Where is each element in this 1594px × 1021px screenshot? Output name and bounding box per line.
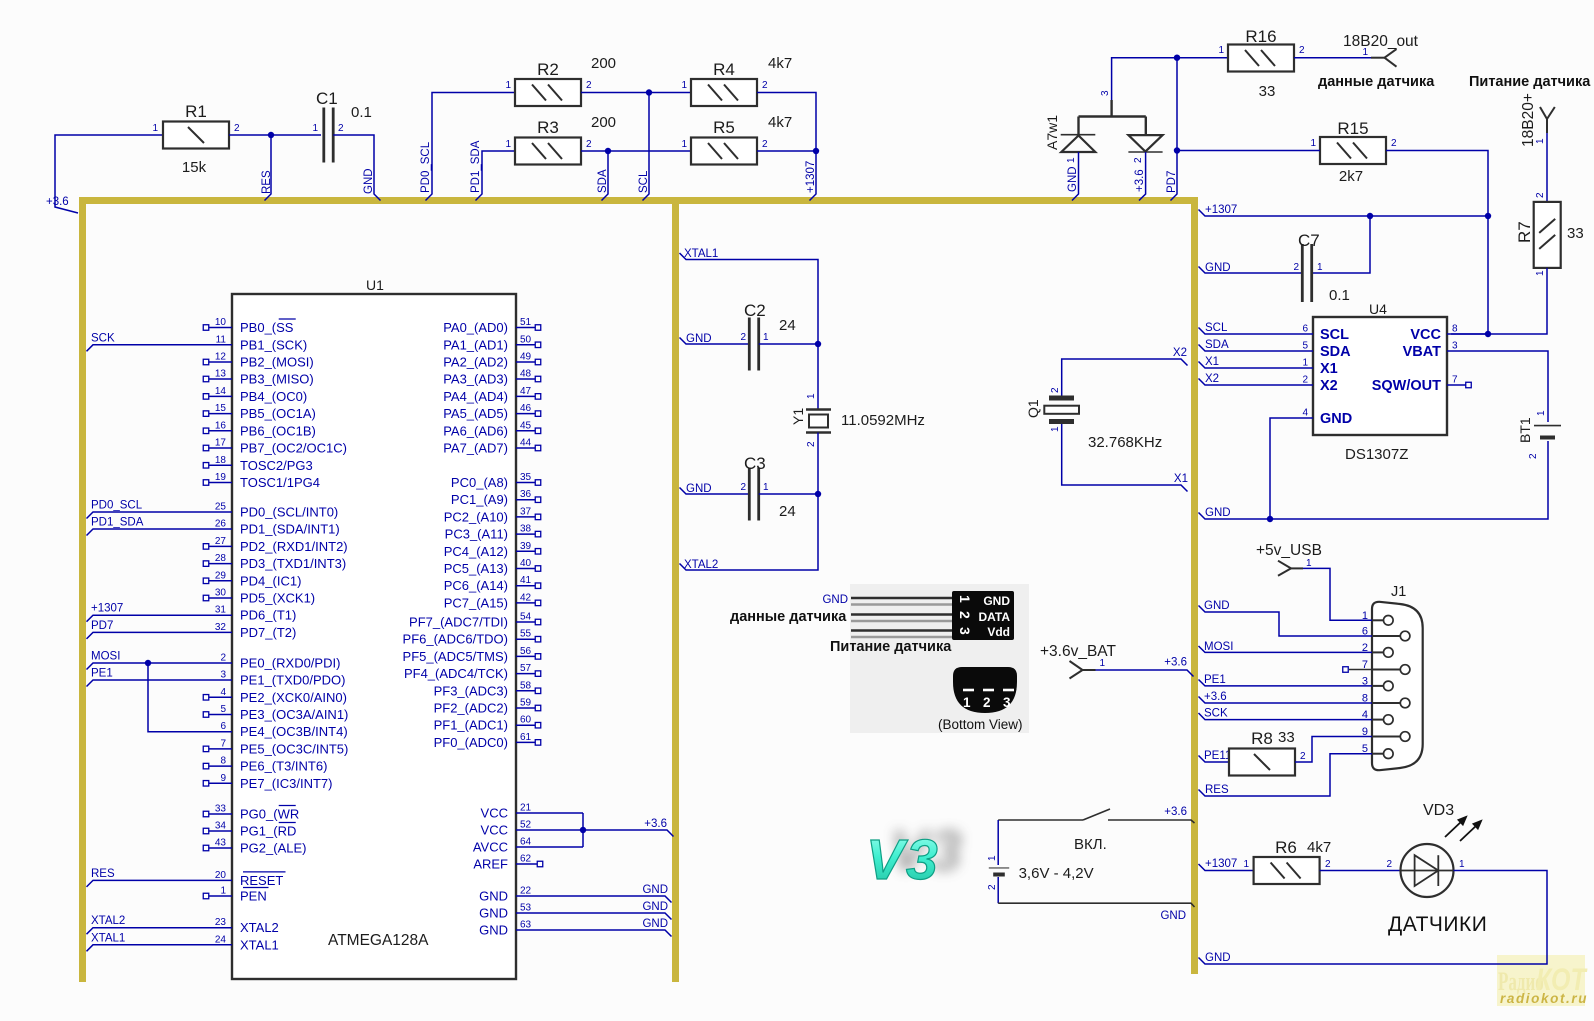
wire BT1 pin2 down and left to GND line <box>1270 441 1548 519</box>
port 18B20+ symbol <box>1546 119 1548 133</box>
resistor R1 <box>163 122 229 149</box>
wire R7 pin1 down to VCC node of U4 <box>1451 268 1547 334</box>
wire U4 VCC pin8 to junction <box>1447 333 1488 335</box>
wire GND from bus to J1 pin6 <box>1199 606 1373 637</box>
capacitor C3 <box>748 468 751 521</box>
svg-text:1: 1 <box>1050 426 1061 432</box>
svg-text:2: 2 <box>762 80 768 91</box>
svg-text:PF3_(ADC3): PF3_(ADC3) <box>434 683 508 698</box>
svg-text:RES: RES <box>91 868 115 880</box>
svg-text:DS1307Z: DS1307Z <box>1345 446 1408 463</box>
U1 pin 3 PE1_(TXD0/PDO) <box>87 680 233 687</box>
svg-text:PA5_(AD5): PA5_(AD5) <box>443 406 508 421</box>
wire VCC trunk to +3.6 bus entry <box>582 813 584 847</box>
svg-text:51: 51 <box>520 317 532 328</box>
battery BT1 <box>1534 425 1561 427</box>
svg-text:SQW/OUT: SQW/OUT <box>1372 378 1441 394</box>
svg-text:4: 4 <box>220 687 226 698</box>
svg-text:PC3_(A11): PC3_(A11) <box>445 527 508 542</box>
svg-text:PA0_(AD0): PA0_(AD0) <box>443 320 508 335</box>
svg-text:3: 3 <box>957 627 973 635</box>
svg-text:U4: U4 <box>1369 301 1387 317</box>
svg-text:GND: GND <box>1205 507 1231 519</box>
U1 pin 43 PG2_(ALE) <box>209 847 232 849</box>
svg-text:5: 5 <box>220 704 226 715</box>
sensor pinout panel background <box>850 584 1029 733</box>
U1 pin 2 PE0_(RXD0/PDI) <box>87 663 233 670</box>
svg-text:PF0_(ADC0): PF0_(ADC0) <box>434 735 508 750</box>
U1 pin 24 XTAL1 <box>87 945 233 952</box>
svg-text:R15: R15 <box>1337 119 1368 138</box>
svg-text:33: 33 <box>215 804 227 815</box>
J1 pin 6 <box>1372 635 1400 637</box>
svg-text:8: 8 <box>220 756 226 767</box>
svg-text:2: 2 <box>234 123 240 134</box>
svg-text:VD3: VD3 <box>1423 802 1454 819</box>
svg-text:39: 39 <box>520 541 532 552</box>
resistor R2 <box>515 79 581 106</box>
wire Y1 pin2 down to junction <box>817 433 819 495</box>
battery GB (3.6V) <box>989 867 1009 869</box>
U1 pin 58 PF3_(ADC3) <box>516 690 535 692</box>
port 18B20_out <box>1371 57 1385 59</box>
svg-text:+3.6: +3.6 <box>1164 806 1187 818</box>
svg-text:15: 15 <box>215 403 227 414</box>
svg-text:2: 2 <box>1528 453 1539 459</box>
bottom view digits 1 2 3 with overbars <box>963 689 974 692</box>
U4 SQW/OUT stub <box>1447 384 1466 386</box>
svg-text:2: 2 <box>762 139 768 150</box>
wire R8 pin2 to J1 pin9 <box>1295 737 1372 763</box>
op chip U1 ATMEGA128A body <box>232 294 516 979</box>
svg-text:2: 2 <box>740 482 746 493</box>
svg-text:MOSI: MOSI <box>1204 641 1233 653</box>
svg-text:PE0_(RXD0/PDI): PE0_(RXD0/PDI) <box>240 656 340 671</box>
svg-text:44: 44 <box>520 438 532 449</box>
U1 pin 9 PE7_(IC3/INT7) <box>209 782 232 784</box>
U1 pin 57 PF4_(ADC4/TCK) <box>516 673 535 675</box>
port +3.6v_BAT symbol <box>1070 661 1083 670</box>
svg-text:22: 22 <box>520 886 532 897</box>
U1 pin 64 AVCC <box>516 846 583 848</box>
svg-text:56: 56 <box>520 646 532 657</box>
svg-text:RESET: RESET <box>240 873 283 888</box>
svg-text:46: 46 <box>520 403 532 414</box>
svg-text:PF5_(ADC5/TMS): PF5_(ADC5/TMS) <box>403 649 508 664</box>
svg-text:1: 1 <box>1306 558 1312 569</box>
U1 pin 13 PB3_(MISO) <box>209 378 232 380</box>
resistor R5 <box>691 138 757 165</box>
svg-text:+3.6: +3.6 <box>46 196 69 208</box>
svg-text:TOSC2/PG3: TOSC2/PG3 <box>240 458 313 473</box>
svg-text:GND: GND <box>1320 411 1352 427</box>
svg-text:+1307: +1307 <box>1205 204 1237 216</box>
U1 pin 47 PA4_(AD4) <box>516 395 535 397</box>
svg-text:6: 6 <box>1302 324 1308 335</box>
junction RES node <box>268 132 274 138</box>
svg-text:PD1_(SDA/INT1): PD1_(SDA/INT1) <box>240 522 340 537</box>
svg-text:57: 57 <box>520 663 532 674</box>
wire SDA down to bus <box>602 151 609 201</box>
svg-text:3: 3 <box>1003 695 1011 710</box>
svg-text:2: 2 <box>586 80 592 91</box>
svg-text:9: 9 <box>220 773 226 784</box>
wire GND from bus to C7 pin2 <box>1199 267 1303 274</box>
svg-text:X1: X1 <box>1320 361 1338 377</box>
svg-text:GND: GND <box>479 923 508 938</box>
wire PE1 from bus to J1 pin3 <box>1199 680 1373 686</box>
svg-text:PD1_SDA: PD1_SDA <box>91 517 144 529</box>
svg-text:R1: R1 <box>185 102 207 121</box>
svg-text:PB6_(OC1B): PB6_(OC1B) <box>240 423 316 438</box>
svg-text:PF2_(ADC2): PF2_(ADC2) <box>434 701 508 716</box>
svg-text:14: 14 <box>215 386 227 397</box>
svg-text:GND: GND <box>642 918 668 930</box>
svg-text:+1307: +1307 <box>805 161 817 193</box>
svg-text:45: 45 <box>520 420 532 431</box>
U1 pin 55 PF6_(ADC6/TDO) <box>516 638 535 640</box>
U1 pin 37 PC2_(A10) <box>516 516 535 518</box>
sensor top view pin leads <box>851 597 952 600</box>
svg-text:32.768KHz: 32.768KHz <box>1088 434 1162 451</box>
U1 pin 48 PA3_(AD3) <box>516 378 535 380</box>
U1 pin 56 PF5_(ADC5/TMS) <box>516 655 535 657</box>
sensor bottom view TO-92 shape <box>953 667 1017 713</box>
svg-text:J1: J1 <box>1391 584 1406 600</box>
U1 pin 33 PG0_(WR <box>209 813 232 815</box>
svg-text:38: 38 <box>520 524 532 535</box>
svg-text:2: 2 <box>806 441 817 447</box>
svg-text:1: 1 <box>1218 45 1224 56</box>
svg-text:AVCC: AVCC <box>473 840 508 855</box>
svg-text:27: 27 <box>215 536 227 547</box>
resistor R7 (vertical) <box>1534 202 1561 268</box>
wire +3.6v_BAT to bus <box>1096 670 1194 677</box>
J1 pin 9 <box>1372 736 1400 738</box>
svg-text:PE5_(OC3C/INT5): PE5_(OC3C/INT5) <box>240 741 348 756</box>
svg-text:XTAL1: XTAL1 <box>91 932 125 944</box>
svg-text:PD3_(TXD1/INT3): PD3_(TXD1/INT3) <box>240 556 346 571</box>
LED VD3 <box>1401 844 1454 897</box>
svg-text:данные датчика: данные датчика <box>730 609 847 625</box>
svg-text:200: 200 <box>591 114 616 131</box>
svg-text:1: 1 <box>1536 410 1547 416</box>
svg-text:GND: GND <box>1205 952 1231 964</box>
svg-text:GND: GND <box>822 594 848 606</box>
svg-text:SCK: SCK <box>1204 708 1228 720</box>
wire battery minus to GND bus entry <box>998 903 1194 907</box>
svg-text:49: 49 <box>520 352 532 363</box>
svg-text:DATA: DATA <box>978 610 1010 624</box>
svg-text:PD1_SDA: PD1_SDA <box>470 140 482 193</box>
U1 pin 46 PA5_(AD5) <box>516 413 535 415</box>
svg-text:42: 42 <box>520 592 532 603</box>
svg-text:PE6_(T3/INT6): PE6_(T3/INT6) <box>240 759 327 774</box>
svg-text:PC1_(A9): PC1_(A9) <box>451 492 508 507</box>
svg-text:ATMEGA128A: ATMEGA128A <box>328 932 429 949</box>
svg-text:64: 64 <box>520 837 532 848</box>
svg-text:2: 2 <box>1133 157 1144 163</box>
svg-text:53: 53 <box>520 903 532 914</box>
svg-text:25: 25 <box>215 502 227 513</box>
svg-text:RES: RES <box>1205 784 1229 796</box>
wire Q1 pin1 to X1 bus entry <box>1062 424 1188 492</box>
svg-text:GND: GND <box>1067 166 1079 192</box>
wire 18B20+ down to R7 pin2 <box>1546 133 1548 202</box>
wire C2 pin1 to junction <box>759 343 818 345</box>
svg-text:1: 1 <box>220 886 226 897</box>
wire C7 pin1 up to +1307 <box>1313 216 1370 273</box>
bus middle vertical <box>672 197 679 982</box>
svg-text:21: 21 <box>520 803 532 814</box>
svg-text:SCK: SCK <box>91 332 115 344</box>
U1 pin 4 PE2_(XCK0/AIN0) <box>209 696 232 698</box>
U1 pin 8 PE6_(T3/INT6) <box>209 765 232 767</box>
svg-text:C2: C2 <box>744 301 766 320</box>
svg-text:Y1: Y1 <box>790 408 806 425</box>
svg-text:GND: GND <box>642 884 668 896</box>
svg-text:PD0_(SCL/INT0): PD0_(SCL/INT0) <box>240 505 338 520</box>
svg-text:200: 200 <box>591 55 616 72</box>
U1 pin 29 PD4_(IC1) <box>209 580 232 582</box>
junction PD7/R15 <box>1174 147 1180 153</box>
svg-text:1: 1 <box>1535 270 1546 276</box>
wire R3 pin2 to R5 pin1 <box>581 150 691 152</box>
U1 pin 38 PC3_(A11) <box>516 533 535 535</box>
U1 pin 54 PF7_(ADC7/TDI) <box>516 621 535 623</box>
junction U4 VCC / R7 <box>1485 331 1491 337</box>
svg-text:50: 50 <box>520 334 532 345</box>
wire VD3 pin1 down to GND line <box>1199 871 1548 965</box>
wire R16 pin2 to 18B20_out port <box>1294 57 1371 59</box>
svg-text:PB4_(OC0): PB4_(OC0) <box>240 389 307 404</box>
svg-text:PD7: PD7 <box>1166 171 1178 193</box>
svg-text:PA6_(AD6): PA6_(AD6) <box>443 423 508 438</box>
svg-text:17: 17 <box>215 438 227 449</box>
U1 pin 14 PB4_(OC0) <box>209 395 232 397</box>
svg-text:43: 43 <box>215 838 227 849</box>
wire U4 GND pin4 down to GND line <box>1270 418 1313 519</box>
svg-text:PF6_(ADC6/TDO): PF6_(ADC6/TDO) <box>403 632 508 647</box>
junction SCL <box>646 89 652 95</box>
U1 pin 23 XTAL2 <box>87 928 233 935</box>
wire battery pin1 vertical <box>997 820 999 865</box>
svg-text:1: 1 <box>1302 358 1308 369</box>
svg-text:33: 33 <box>1278 729 1295 746</box>
svg-text:C7: C7 <box>1298 231 1320 250</box>
svg-text:GND: GND <box>479 889 508 904</box>
svg-text:XTAL2: XTAL2 <box>684 559 718 571</box>
svg-text:23: 23 <box>215 917 227 928</box>
svg-text:PB7_(OC2/OC1C): PB7_(OC2/OC1C) <box>240 441 347 456</box>
svg-text:PE1_(TXD0/PDO): PE1_(TXD0/PDO) <box>240 673 345 688</box>
svg-text:R2: R2 <box>537 60 559 79</box>
svg-text:29: 29 <box>215 570 227 581</box>
junction SDA <box>605 148 611 154</box>
svg-text:+3.6: +3.6 <box>1164 657 1187 669</box>
svg-text:GND: GND <box>983 594 1010 608</box>
svg-text:X1: X1 <box>1205 356 1219 368</box>
junction R5/+1307 <box>813 148 819 154</box>
U1 pin 6 PE4_(OC3B/INT4) <box>148 663 232 732</box>
svg-text:PG1_(RD: PG1_(RD <box>240 824 296 839</box>
diode pair A7w1 <box>1110 100 1112 117</box>
svg-text:35: 35 <box>520 472 532 483</box>
svg-text:1: 1 <box>763 482 769 493</box>
svg-text:PG0_(WR: PG0_(WR <box>240 807 299 822</box>
svg-text:54: 54 <box>520 612 532 623</box>
U1 pin 19 TOSC1/1PG4 <box>209 482 232 484</box>
svg-text:X2: X2 <box>1320 378 1338 394</box>
svg-text:5: 5 <box>1302 341 1308 352</box>
wire Q1 pin2 to X2 bus entry <box>1062 359 1188 396</box>
svg-text:16: 16 <box>215 420 227 431</box>
svg-text:2: 2 <box>338 123 344 134</box>
wire R6 pin2 to VD3 <box>1320 870 1401 872</box>
svg-text:PD7: PD7 <box>91 620 113 632</box>
svg-text:PF1_(ADC1): PF1_(ADC1) <box>434 718 508 733</box>
U1 pin 5 PE3_(OC3A/AIN1) <box>209 714 232 716</box>
wire +5v_USB to J1 pin1 <box>1303 568 1372 620</box>
svg-text:XTAL2: XTAL2 <box>240 920 279 935</box>
svg-text:GND: GND <box>642 901 668 913</box>
svg-text:MOSI: MOSI <box>91 651 120 663</box>
svg-text:R16: R16 <box>1245 27 1276 46</box>
svg-text:PF7_(ADC7/TDI): PF7_(ADC7/TDI) <box>409 615 508 630</box>
svg-text:37: 37 <box>520 506 532 517</box>
wire GND from bus to C3 pin2 <box>680 488 750 495</box>
svg-text:PEN: PEN <box>240 889 267 904</box>
svg-text:1: 1 <box>1100 658 1106 669</box>
svg-text:7: 7 <box>1452 375 1458 386</box>
svg-text:ВКЛ.: ВКЛ. <box>1074 836 1107 853</box>
junction GND/U4 <box>1267 516 1273 522</box>
U1 pin 1 PEN <box>209 895 232 897</box>
svg-text:VCC: VCC <box>481 806 508 821</box>
wire R2 pin2 to R4 pin1 <box>581 92 691 94</box>
svg-text:Питание датчика: Питание датчика <box>1469 74 1591 90</box>
svg-text:R7: R7 <box>1515 221 1534 243</box>
svg-text:2: 2 <box>1325 859 1331 870</box>
svg-text:4k7: 4k7 <box>768 114 792 131</box>
U1 pin 26 PD1_(SDA/INT1) <box>87 529 233 536</box>
svg-text:18: 18 <box>215 455 227 466</box>
svg-text:PC5_(A13): PC5_(A13) <box>444 561 508 576</box>
resistor R8 <box>1229 749 1295 776</box>
wire +1307 from bus to R15/R7 branch <box>1199 210 1489 217</box>
svg-text:63: 63 <box>520 920 532 931</box>
svg-text:TOSC1/1PG4: TOSC1/1PG4 <box>240 475 320 490</box>
U1 pin 7 PE5_(OC3C/INT5) <box>209 748 232 750</box>
chip U4 DS1307Z body <box>1313 317 1447 435</box>
svg-text:R5: R5 <box>713 118 735 137</box>
wire PD7 vertical down to bus <box>1171 58 1178 201</box>
svg-text:PD6_(T1): PD6_(T1) <box>240 608 296 623</box>
svg-text:PE11: PE11 <box>1204 750 1231 762</box>
svg-text:PE4_(OC3B/INT4): PE4_(OC3B/INT4) <box>240 724 348 739</box>
wire XTAL1 from bus to crystal branch <box>680 253 819 344</box>
svg-text:PE2_(XCK0/AIN0): PE2_(XCK0/AIN0) <box>240 690 347 705</box>
wire PD1_SDA from bus up to R3 pin1 <box>476 151 516 201</box>
svg-text:2k7: 2k7 <box>1339 168 1363 185</box>
U1 pin 17 PB7_(OC2/OC1C) <box>209 447 232 449</box>
svg-text:15k: 15k <box>182 159 207 176</box>
svg-text:V3: V3 <box>866 828 940 892</box>
svg-text:SCL: SCL <box>1320 327 1349 343</box>
junction XTAL2/C3/Y1 <box>815 491 821 497</box>
svg-text:данные датчика: данные датчика <box>1318 74 1435 90</box>
U1 pin 10 PB0_(SS <box>209 327 232 329</box>
U1 pin 11 PB1_(SCK) <box>87 345 233 352</box>
svg-text:4k7: 4k7 <box>768 55 792 72</box>
svg-text:12: 12 <box>215 352 227 363</box>
svg-text:C1: C1 <box>316 89 338 108</box>
svg-text:1: 1 <box>681 80 687 91</box>
svg-text:33: 33 <box>1259 83 1276 100</box>
J1 pin7 stub <box>1349 669 1372 671</box>
junction +1307/C7 <box>1367 213 1373 219</box>
svg-text:1: 1 <box>1317 262 1323 273</box>
U1 pin 34 PG1_(RD <box>209 830 232 832</box>
resistor R3 <box>515 138 581 165</box>
svg-text:PA1_(AD1): PA1_(AD1) <box>443 337 508 352</box>
svg-text:31: 31 <box>215 605 227 616</box>
svg-text:PG2_(ALE): PG2_(ALE) <box>240 841 306 856</box>
A7w1 pin 1 wire to GND bus entry <box>1072 152 1079 201</box>
wire R1 pin2 to C1 <box>229 134 321 136</box>
svg-text:(Bottom View): (Bottom View) <box>938 717 1023 732</box>
svg-text:2: 2 <box>1391 138 1397 149</box>
svg-text:VCC: VCC <box>481 823 508 838</box>
svg-text:SCL: SCL <box>638 170 650 193</box>
svg-text:PD0_SCL: PD0_SCL <box>420 141 432 193</box>
svg-text:Питание датчика: Питание датчика <box>830 639 952 655</box>
svg-text:PD4_(IC1): PD4_(IC1) <box>240 573 301 588</box>
svg-text:PC2_(A10): PC2_(A10) <box>444 509 508 524</box>
svg-text:61: 61 <box>520 732 532 743</box>
svg-text:2: 2 <box>1300 751 1306 762</box>
svg-text:62: 62 <box>520 854 532 865</box>
svg-text:SDA: SDA <box>597 169 609 193</box>
svg-text:41: 41 <box>520 575 532 586</box>
svg-text:3: 3 <box>1452 341 1458 352</box>
svg-text:7: 7 <box>220 738 226 749</box>
svg-text:A7w1: A7w1 <box>1044 115 1060 150</box>
junction MOSI/PE4 <box>145 660 151 666</box>
svg-text:+1307: +1307 <box>1205 858 1237 870</box>
svg-text:BT1: BT1 <box>1517 417 1533 443</box>
svg-text:GND: GND <box>363 168 375 194</box>
svg-text:X2: X2 <box>1205 373 1219 385</box>
svg-text:36: 36 <box>520 489 532 500</box>
svg-text:XTAL2: XTAL2 <box>91 915 125 927</box>
connector J1 body <box>1372 602 1423 770</box>
U1 pin 39 PC4_(A12) <box>516 550 535 552</box>
svg-text:24: 24 <box>779 317 796 334</box>
svg-text:1: 1 <box>681 139 687 150</box>
resistor R16 <box>1228 45 1294 72</box>
svg-text:PD0_SCL: PD0_SCL <box>91 500 143 512</box>
svg-text:PB5_(OC1A): PB5_(OC1A) <box>240 406 316 421</box>
junction +1307/R15 <box>1485 213 1491 219</box>
svg-text:+5v_USB: +5v_USB <box>1256 542 1322 559</box>
svg-text:60: 60 <box>520 715 532 726</box>
bus left vertical <box>79 197 86 982</box>
svg-text:34: 34 <box>215 821 227 832</box>
svg-text:52: 52 <box>520 820 532 831</box>
wire +1307 from bus to R6 pin1 <box>1199 864 1254 871</box>
A7w1 pin 2 wire to +3.6 bus entry <box>1139 152 1146 201</box>
